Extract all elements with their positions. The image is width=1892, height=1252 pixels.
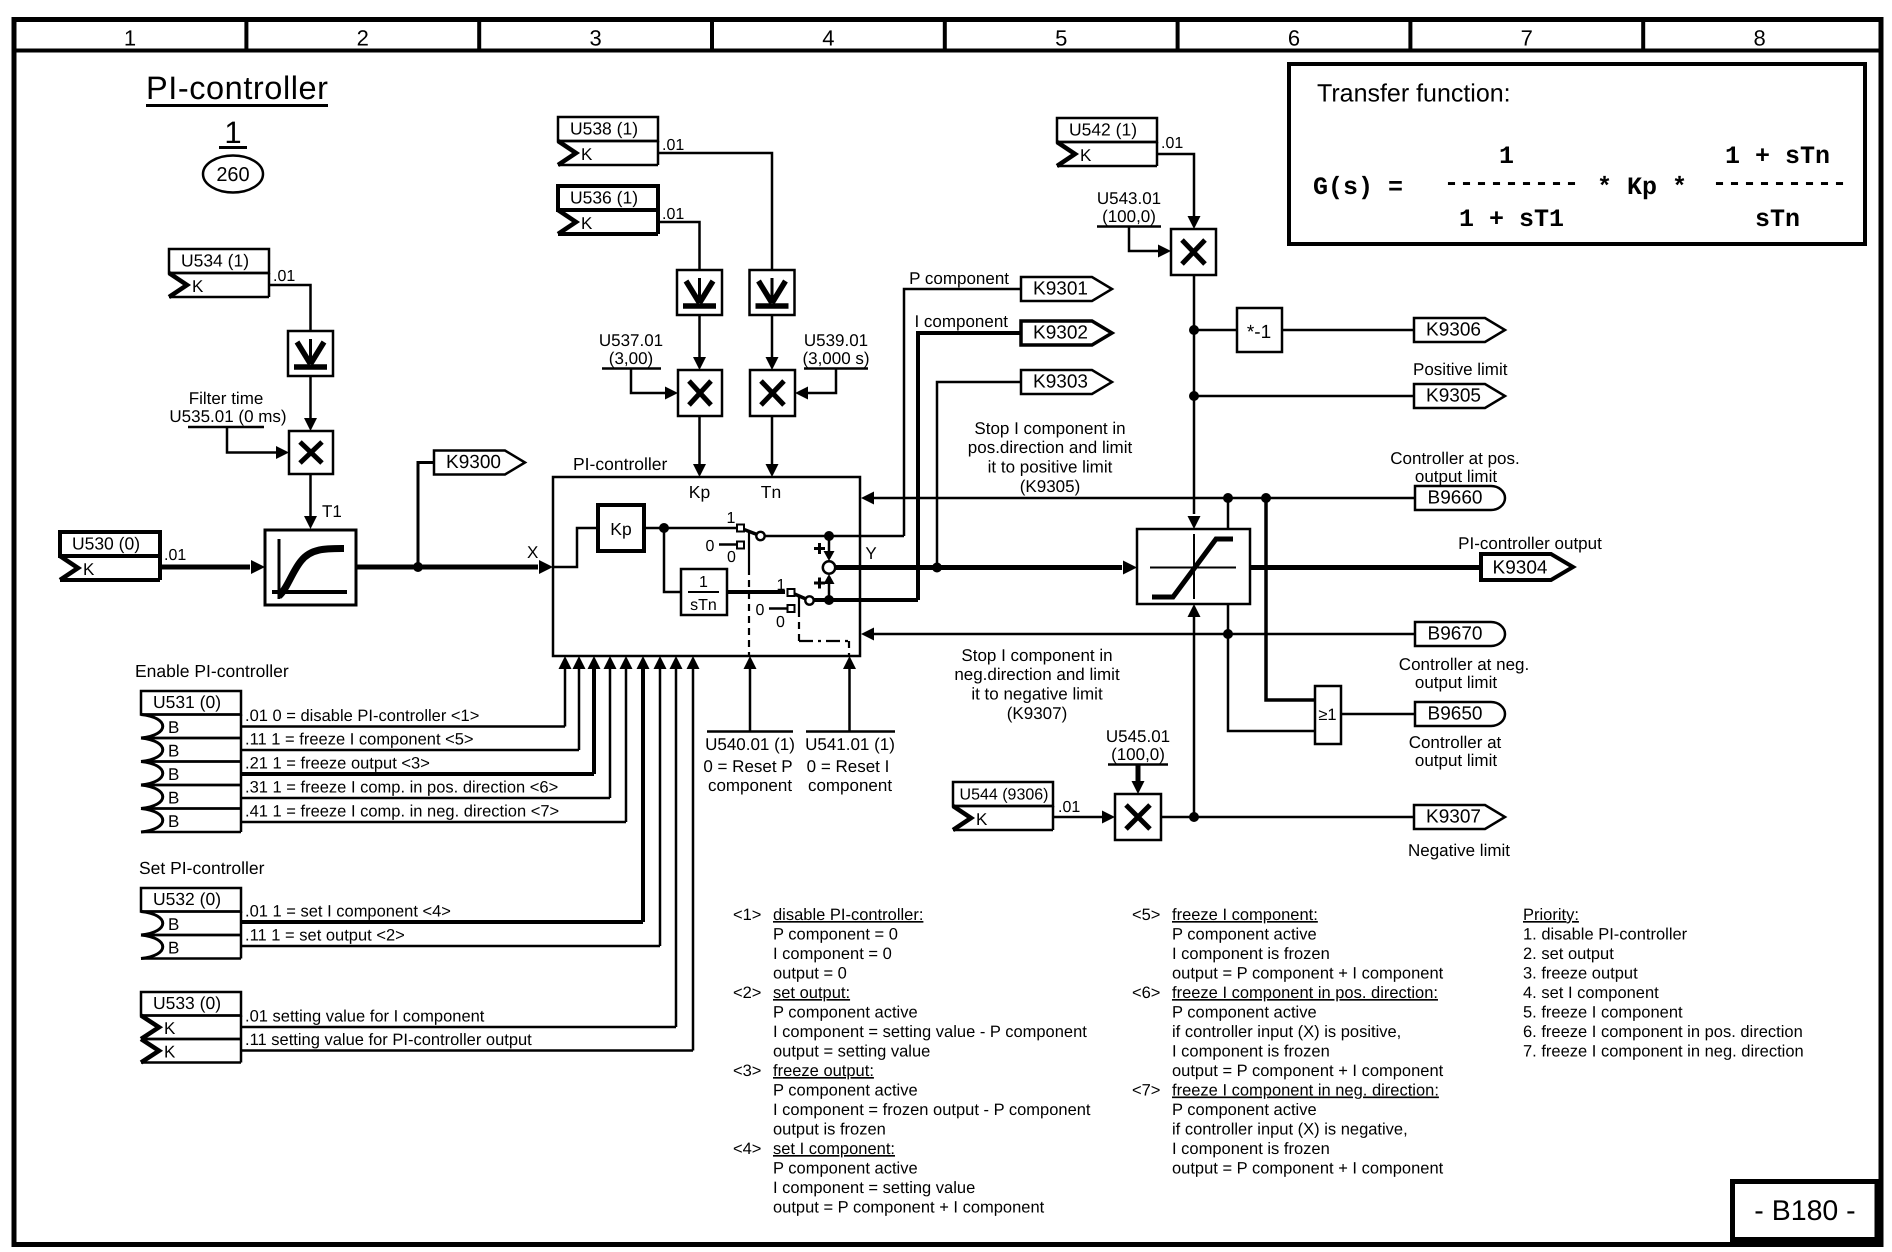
wire stop-I-neg into PI box [874, 633, 1415, 636]
svg-text:output = 0: output = 0 [773, 965, 847, 983]
connector U531 (0) binary inputs [141, 691, 241, 715]
svg-text:K9304: K9304 [1493, 558, 1548, 579]
svg-text:≥1: ≥1 [1318, 706, 1336, 724]
svg-text:3. freeze output: 3. freeze output [1523, 965, 1638, 983]
wire switch 2 output (I component) [814, 598, 919, 602]
wire U535.01 into multiplier [227, 427, 276, 453]
wire U533.11 setting value output [241, 1049, 693, 1052]
plus sign upper [814, 547, 825, 550]
node B9660 tap 2 [1261, 493, 1271, 503]
wire Y to K9303 [937, 382, 1021, 568]
svg-text:B: B [168, 939, 179, 958]
svg-text:B9670: B9670 [1428, 624, 1483, 645]
svg-text:it to negative limit: it to negative limit [971, 685, 1103, 704]
svg-text:1 + sTn: 1 + sTn [1725, 142, 1830, 171]
multiplier block filter time [289, 431, 333, 474]
svg-text:B9650: B9650 [1428, 704, 1483, 725]
wire switch 1 output (P component) [765, 535, 905, 538]
node Y tap to K9303 [932, 563, 942, 573]
sheet label box B180 [1733, 1182, 1878, 1240]
svg-text:1: 1 [224, 115, 241, 150]
wire U533.01 setting value I component [241, 1026, 676, 1029]
svg-text:I component is frozen: I component is frozen [1172, 1140, 1330, 1158]
svg-text:I component = setting value: I component = setting value [773, 1179, 975, 1197]
node P component to summator [824, 531, 834, 541]
wire U545.01 into negative-limit multiplier (thick) [1136, 765, 1141, 783]
svg-text:U543.01: U543.01 [1097, 189, 1161, 208]
svg-text:(3,00): (3,00) [609, 349, 653, 368]
svg-text:.01 0 = disable PI-controller: .01 0 = disable PI-controller <1> [245, 707, 479, 725]
connector K9302 output [1021, 321, 1112, 345]
svg-text:I component: I component [914, 312, 1008, 331]
svg-text:K9305: K9305 [1426, 386, 1481, 407]
svg-text:7: 7 [1521, 26, 1533, 51]
node to K9305 [1189, 391, 1199, 401]
svg-text:.01: .01 [662, 137, 684, 154]
wires enable/set inputs rising into PI-controller box [564, 669, 567, 727]
parameter U540.01 (1) reset P [707, 730, 793, 733]
svg-text:1: 1 [777, 577, 786, 594]
svg-text:B: B [168, 789, 179, 808]
wire P component to K9301 [904, 289, 1021, 536]
wire U544 into multiplier [1053, 816, 1102, 819]
svg-text:<3>: <3> [733, 1062, 761, 1080]
svg-text:0: 0 [756, 602, 765, 619]
wire U537.01 into multiplier [631, 369, 665, 394]
svg-text:Stop I component in: Stop I component in [974, 419, 1125, 438]
svg-text:output limit: output limit [1415, 467, 1497, 486]
svg-text:U531 (0): U531 (0) [153, 692, 221, 712]
svg-text:6: 6 [1288, 26, 1300, 51]
svg-text:B9660: B9660 [1428, 488, 1483, 509]
svg-text:.01: .01 [1058, 799, 1080, 816]
svg-text:X: X [527, 543, 538, 562]
svg-text:U541.01 (1): U541.01 (1) [805, 735, 895, 754]
svg-text:1: 1 [1499, 142, 1514, 171]
node B9670 tap [1223, 629, 1233, 639]
svg-text:I component is frozen: I component is frozen [1172, 1043, 1330, 1061]
svg-text:freeze I component in pos. dir: freeze I component in pos. direction: [1172, 984, 1438, 1002]
wire integrator output to switch 2 [727, 590, 785, 594]
multiplier block positive limit [1171, 229, 1216, 275]
wire U534 to normalization block [269, 285, 311, 331]
wire arrow into Tn multiplier [771, 315, 774, 359]
svg-text:.11 setting value for PI-cont: .11 setting value for PI-controller outp… [245, 1031, 532, 1049]
svg-text:.01: .01 [273, 268, 295, 285]
svg-text:output = setting value: output = setting value [773, 1043, 930, 1061]
svg-text:0 = Reset P: 0 = Reset P [703, 757, 792, 776]
svg-text:output limit: output limit [1415, 673, 1497, 692]
PT1 filter block [265, 530, 356, 605]
svg-text:P component active: P component active [1172, 926, 1317, 944]
svg-text:U533 (0): U533 (0) [153, 993, 221, 1013]
svg-text:U540.01 (1): U540.01 (1) [705, 735, 795, 754]
svg-text:U534 (1): U534 (1) [181, 251, 249, 271]
svg-text:.21 1 = freeze output <3>: .21 1 = freeze output <3> [245, 755, 430, 773]
svg-text:K9307: K9307 [1426, 807, 1481, 828]
svg-text:set I component:: set I component: [773, 1140, 895, 1158]
svg-text:B: B [168, 812, 179, 831]
wire arrow Tn parameter into PI-controller box [771, 416, 774, 464]
svg-text:.01: .01 [1161, 135, 1183, 152]
wire negative limit to K9307 [1161, 816, 1414, 819]
wire X to Kp block [553, 528, 598, 567]
svg-text:K9301: K9301 [1033, 279, 1088, 300]
svg-text:.11 1 = freeze I component <5: .11 1 = freeze I component <5> [245, 731, 474, 749]
svg-text:freeze I component in neg. dir: freeze I component in neg. direction: [1172, 1082, 1439, 1100]
svg-text:K9300: K9300 [446, 452, 501, 473]
wire U539.01 into multiplier [808, 369, 836, 394]
svg-text:6. freeze I component in pos.: 6. freeze I component in pos. direction [1523, 1023, 1803, 1041]
switch 1 control dashed line [748, 532, 750, 568]
svg-text:<1>: <1> [733, 906, 761, 924]
svg-text:output = P component + I compo: output = P component + I component [1172, 965, 1444, 983]
svg-text:K: K [164, 1043, 176, 1062]
svg-text:K: K [1080, 146, 1092, 165]
wire arrow into filter-time multiplier [309, 376, 312, 418]
connector K9307 output [1414, 805, 1505, 829]
connector U533 (0) K inputs [141, 992, 241, 1016]
svg-text:<4>: <4> [733, 1140, 761, 1158]
svg-text:.01: .01 [164, 547, 186, 564]
plus sign lower [814, 582, 825, 585]
svg-text:U535.01 (0 ms): U535.01 (0 ms) [169, 407, 286, 426]
svg-text:U537.01: U537.01 [599, 331, 663, 350]
svg-text:1: 1 [727, 510, 736, 527]
multiplier block Kp (U537) [678, 370, 722, 416]
svg-text:K9302: K9302 [1033, 323, 1088, 344]
connector K9305 output [1414, 384, 1505, 408]
normalization block (filter time) [288, 331, 333, 376]
svg-text:<6>: <6> [1132, 984, 1160, 1002]
sheet number ellipse 260 [203, 156, 263, 193]
node negative limit tap [1189, 812, 1199, 822]
wire branch to integrator [664, 528, 681, 592]
switch 2 control dashed line [798, 596, 800, 610]
node Kp output branch [659, 523, 669, 533]
wire limiter output to K9304 (thick) [1250, 565, 1481, 570]
svg-text:disable PI-controller:: disable PI-controller: [773, 906, 923, 924]
svg-text:K9303: K9303 [1033, 372, 1088, 393]
wire Y output to limiter (thick) [835, 565, 1122, 570]
svg-text:1: 1 [124, 26, 136, 51]
OR block >=1 [1315, 686, 1341, 744]
wire U531.01 0 = disable PI- [241, 725, 565, 728]
svg-text:*-1: *-1 [1247, 322, 1271, 343]
multiplier block negative limit [1115, 794, 1161, 840]
svg-text:B: B [168, 765, 179, 784]
svg-text:(100,0): (100,0) [1102, 207, 1156, 226]
header ruler bottom line [12, 49, 1883, 53]
wire U542 into positive-limit multiplier [1157, 154, 1194, 216]
svg-text:5. freeze I component: 5. freeze I component [1523, 1004, 1683, 1022]
svg-text:2. set output: 2. set output [1523, 945, 1614, 963]
svg-text:- B180 -: - B180 - [1754, 1195, 1855, 1227]
svg-text:(3,000 s): (3,000 s) [802, 349, 869, 368]
connector U534 (1) K input [169, 249, 269, 273]
svg-text:K: K [976, 810, 988, 829]
svg-text:set output:: set output: [773, 984, 850, 1002]
svg-text:B: B [168, 915, 179, 934]
svg-text:B: B [168, 718, 179, 737]
svg-text:5: 5 [1055, 26, 1067, 51]
svg-text:I component = setting value -: I component = setting value - P componen… [773, 1023, 1087, 1041]
node to inverter [1189, 325, 1199, 335]
header column dividers [244, 20, 248, 51]
svg-text:7. freeze I component in neg.: 7. freeze I component in neg. direction [1523, 1043, 1804, 1061]
svg-text:<7>: <7> [1132, 1082, 1160, 1100]
svg-text:output is frozen: output is frozen [773, 1121, 886, 1139]
svg-text:output = P component + I compo: output = P component + I component [1172, 1160, 1444, 1178]
svg-text:.31 1 = freeze I comp. in pos: .31 1 = freeze I comp. in pos. direction… [245, 779, 558, 797]
wire Kp output to switch 1 [644, 527, 737, 530]
svg-text:G(s) =: G(s) = [1313, 173, 1403, 202]
svg-text:T1: T1 [322, 502, 342, 521]
svg-text:U530 (0): U530 (0) [72, 534, 140, 554]
connector U536 (1) K input [558, 186, 658, 210]
svg-text:component: component [708, 776, 792, 795]
svg-text:Priority:: Priority: [1523, 906, 1579, 924]
svg-text:Filter time: Filter time [189, 389, 264, 408]
svg-text:PI-controller: PI-controller [573, 454, 668, 474]
wire I component to K9302 [918, 333, 1021, 600]
svg-text:.11 1 = set output <2>: .11 1 = set output <2> [245, 927, 405, 945]
wire U531.31 1 = freeze I co [241, 797, 610, 800]
summation point [823, 561, 835, 573]
svg-text:neg.direction and limit: neg.direction and limit [954, 665, 1120, 684]
wire limiter pos-status up [1227, 498, 1230, 529]
svg-text:K9306: K9306 [1426, 320, 1481, 341]
node B9660 tap 1 [1223, 493, 1233, 503]
wire U538 to normalization block [658, 153, 772, 270]
svg-text:0 = Reset I: 0 = Reset I [807, 757, 890, 776]
connector K9306 output [1414, 318, 1505, 342]
node I component to summator [824, 595, 834, 605]
connector U530 (0) K input [60, 532, 160, 556]
svg-text:it to positive limit: it to positive limit [988, 458, 1113, 477]
svg-text:P component active: P component active [773, 1082, 918, 1100]
wire to inverter *-1 [1194, 329, 1237, 332]
connector K9304 output [1481, 554, 1573, 580]
svg-text:sTn: sTn [690, 597, 717, 614]
svg-text:I component is frozen: I component is frozen [1172, 945, 1330, 963]
wire reset I input arrow [848, 669, 851, 732]
svg-text:U539.01: U539.01 [804, 331, 868, 350]
svg-text:P component active: P component active [1172, 1101, 1317, 1119]
PI-controller block frame [553, 477, 860, 656]
svg-text:Enable PI-controller: Enable PI-controller [135, 661, 289, 681]
svg-text:U545.01: U545.01 [1106, 727, 1170, 746]
wire arrow Kp parameter into PI-controller box [698, 416, 701, 464]
wire U536 to normalization block [658, 222, 700, 270]
svg-text:Transfer function:: Transfer function: [1317, 80, 1511, 108]
svg-text:U536 (1): U536 (1) [570, 188, 638, 208]
svg-text:component: component [808, 776, 892, 795]
svg-text:if controller input (X) is neg: if controller input (X) is negative, [1172, 1121, 1408, 1139]
wire reset P input arrow [749, 669, 752, 732]
svg-text:---------: --------- [1444, 169, 1579, 198]
svg-text:Controller at neg.: Controller at neg. [1399, 655, 1529, 674]
wire to K9305 [1194, 395, 1414, 398]
connector B9670 output [1415, 622, 1505, 646]
connector B9660 output [1415, 486, 1505, 510]
svg-text:Tn: Tn [761, 482, 781, 502]
connector U538 (1) K input [558, 117, 658, 141]
svg-text:P component active: P component active [773, 1160, 918, 1178]
svg-text:.41 1 = freeze I comp. in neg: .41 1 = freeze I comp. in neg. direction… [245, 803, 559, 821]
svg-text:U542 (1): U542 (1) [1069, 120, 1137, 140]
svg-text:Kp: Kp [689, 482, 710, 502]
wire U532.11 set output [241, 945, 660, 948]
connector K9300 output [434, 451, 525, 475]
svg-text:Stop I component in: Stop I component in [961, 646, 1112, 665]
svg-text:<5>: <5> [1132, 906, 1160, 924]
wire negative limit up to limiter [1193, 617, 1196, 817]
svg-text:freeze output:: freeze output: [773, 1062, 874, 1080]
connector K9301 output [1021, 277, 1112, 301]
multiplier block Tn (U539) [750, 370, 795, 416]
svg-text:if controller input (X) is pos: if controller input (X) is positive, [1172, 1023, 1401, 1041]
svg-text:pos.direction and limit: pos.direction and limit [968, 438, 1133, 457]
transfer function box [1289, 64, 1865, 244]
integrator block 1/sTn [681, 569, 727, 615]
svg-text:U532 (0): U532 (0) [153, 889, 221, 909]
normalization block (Tn path) [750, 270, 795, 315]
svg-text:.01 setting value for I compo: .01 setting value for I component [245, 1008, 485, 1026]
wire stop-I-pos into PI box from limiter status [874, 497, 1415, 500]
wire arrow P into summator [828, 536, 831, 552]
svg-text:1 + sT1: 1 + sT1 [1459, 205, 1564, 234]
svg-text:K: K [192, 277, 204, 296]
wire OR output to B9650 [1341, 713, 1415, 716]
svg-text:P component active: P component active [1172, 1004, 1317, 1022]
svg-text:P component: P component [909, 269, 1009, 288]
svg-text:8: 8 [1753, 26, 1765, 51]
svg-text:P component active: P component active [773, 1004, 918, 1022]
wire filter output to PI-controller box input X [356, 565, 538, 570]
svg-text:B: B [168, 742, 179, 761]
limiter block [1137, 529, 1250, 604]
svg-text:0: 0 [776, 614, 785, 631]
svg-text:I component = frozen output -: I component = frozen output - P componen… [773, 1101, 1091, 1119]
connector U544 (9306) K input [953, 782, 1053, 806]
svg-text:* Kp *: * Kp * [1597, 173, 1687, 202]
svg-text:0: 0 [706, 538, 715, 555]
inverter block *-1 [1237, 308, 1282, 352]
svg-text:4: 4 [822, 26, 834, 51]
svg-text:(100,0): (100,0) [1111, 745, 1165, 764]
wire inverter to K9306 [1282, 329, 1414, 332]
wire arrow I into summator [828, 583, 831, 600]
svg-text:Kp: Kp [610, 519, 631, 539]
svg-text:4. set I component: 4. set I component [1523, 984, 1659, 1002]
svg-text:<2>: <2> [733, 984, 761, 1002]
svg-text:3: 3 [589, 26, 601, 51]
svg-text:PI-controller: PI-controller [146, 70, 328, 106]
wire U531.11 1 = freeze I co [241, 749, 579, 752]
svg-text:.01: .01 [662, 206, 684, 223]
svg-text:K: K [83, 560, 95, 579]
svg-text:sTn: sTn [1755, 205, 1800, 234]
wire U532.01 set I component [241, 920, 643, 924]
svg-text:(K9305): (K9305) [1020, 477, 1080, 496]
wire pos-status tap down to OR [1266, 498, 1315, 700]
wire U531.41 1 = freeze I co [241, 821, 626, 824]
svg-text:output = P component + I compo: output = P component + I component [1172, 1062, 1444, 1080]
svg-text:Positive limit: Positive limit [1413, 360, 1508, 379]
svg-text:K: K [164, 1019, 176, 1038]
svg-text:Y: Y [865, 544, 876, 563]
svg-text:260: 260 [216, 164, 249, 186]
svg-text:0: 0 [727, 549, 736, 566]
svg-text:(K9307): (K9307) [1007, 704, 1067, 723]
connector K9303 output [1021, 370, 1112, 394]
svg-text:1: 1 [699, 574, 708, 591]
wire positive limit down to limiter [1193, 275, 1196, 514]
wire U543.01 into multiplier [1129, 227, 1158, 252]
svg-text:output = P component + I compo: output = P component + I component [773, 1199, 1045, 1217]
svg-text:U544 (9306): U544 (9306) [960, 787, 1049, 804]
svg-text:PI-controller output: PI-controller output [1458, 534, 1602, 553]
svg-text:1. disable PI-controller: 1. disable PI-controller [1523, 926, 1688, 944]
Kp gain block [598, 505, 644, 551]
wire U530 into filter (main input) [160, 565, 250, 570]
svg-text:Controller at: Controller at [1409, 733, 1502, 752]
svg-text:output limit: output limit [1415, 751, 1497, 770]
normalization block (Kp path) [677, 270, 722, 315]
svg-text:U538 (1): U538 (1) [570, 119, 638, 139]
connector B9650 output [1415, 702, 1505, 726]
svg-text:Controller at pos.: Controller at pos. [1390, 449, 1519, 468]
wire U531.21 1 = freeze outp [241, 772, 594, 776]
connector U532 (0) binary inputs [141, 888, 241, 912]
svg-text:P component = 0: P component = 0 [773, 926, 898, 944]
svg-text:freeze I component:: freeze I component: [1172, 906, 1318, 924]
wire limiter neg-status down to OR [1228, 604, 1315, 731]
wire arrow into Kp multiplier [698, 315, 701, 359]
svg-text:2: 2 [357, 26, 369, 51]
parameter U541.01 (1) reset I [806, 730, 895, 733]
svg-text:K: K [581, 145, 593, 164]
svg-text:Set PI-controller: Set PI-controller [139, 858, 265, 878]
svg-text:.01 1 = set I component <4>: .01 1 = set I component <4> [245, 903, 451, 921]
connector U542 (1) K input [1057, 118, 1157, 142]
svg-text:---------: --------- [1712, 169, 1847, 198]
node K9300 tap [413, 562, 423, 572]
svg-text:I component = 0: I component = 0 [773, 945, 892, 963]
svg-text:Negative limit: Negative limit [1408, 841, 1510, 860]
wire arrow T1 into filter [309, 474, 312, 516]
svg-text:K: K [581, 214, 593, 233]
